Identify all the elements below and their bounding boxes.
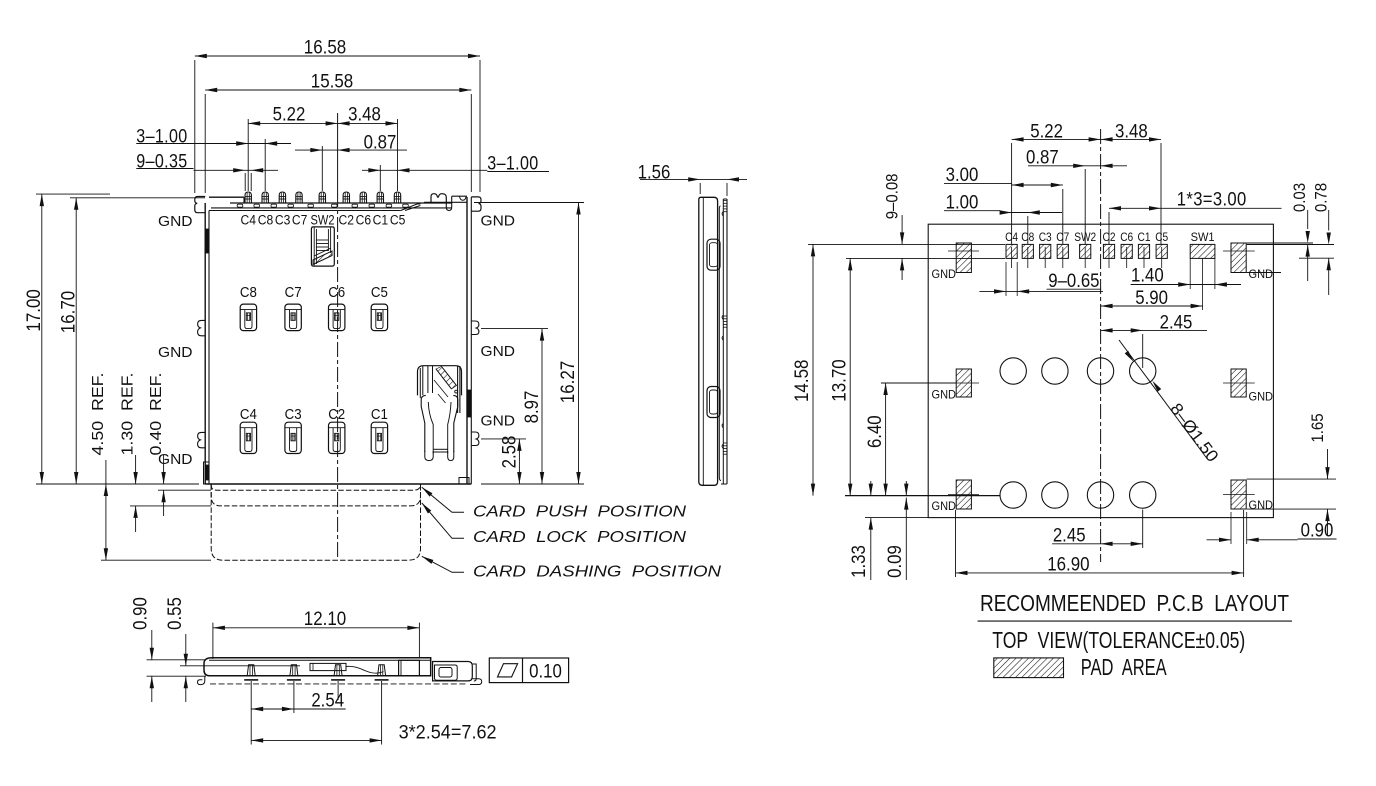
- svg-text:C5: C5: [1155, 230, 1168, 244]
- svg-text:9–0.08: 9–0.08: [883, 174, 902, 220]
- svg-text:14.58: 14.58: [792, 360, 813, 402]
- svg-text:GND: GND: [481, 413, 516, 430]
- svg-text:C4: C4: [240, 407, 257, 423]
- svg-text:0.40 REF.: 0.40 REF.: [148, 373, 165, 456]
- svg-text:2.58: 2.58: [499, 436, 520, 469]
- svg-text:C2: C2: [338, 212, 354, 227]
- svg-text:CARD LOCK POSITION: CARD LOCK POSITION: [473, 529, 687, 546]
- svg-text:C3: C3: [275, 212, 291, 227]
- svg-text:0.78: 0.78: [1312, 183, 1331, 212]
- svg-text:GND: GND: [158, 344, 193, 361]
- svg-text:0.10: 0.10: [529, 661, 562, 682]
- svg-text:0.87: 0.87: [364, 133, 397, 154]
- svg-text:GND: GND: [481, 343, 516, 360]
- svg-text:GND: GND: [932, 388, 957, 402]
- svg-text:5.22: 5.22: [1030, 122, 1063, 143]
- svg-text:C3: C3: [1039, 230, 1052, 244]
- svg-text:1.33: 1.33: [849, 545, 870, 578]
- svg-text:SW1: SW1: [1191, 230, 1215, 244]
- svg-text:GND: GND: [1249, 498, 1274, 512]
- svg-text:12.10: 12.10: [304, 609, 346, 630]
- svg-text:0.09: 0.09: [885, 545, 906, 578]
- svg-text:C5: C5: [371, 285, 388, 301]
- svg-text:PAD AREA: PAD AREA: [1081, 654, 1167, 680]
- svg-text:3*2.54=7.62: 3*2.54=7.62: [399, 723, 497, 744]
- svg-text:4.50 REF.: 4.50 REF.: [90, 373, 107, 456]
- svg-text:GND: GND: [481, 213, 516, 230]
- svg-text:C5: C5: [390, 212, 406, 227]
- svg-text:0.03: 0.03: [1290, 183, 1309, 212]
- svg-text:C4: C4: [240, 212, 256, 227]
- svg-text:3.48: 3.48: [1115, 122, 1148, 143]
- svg-text:3–1.00: 3–1.00: [136, 127, 187, 148]
- svg-text:1.30 REF.: 1.30 REF.: [119, 373, 136, 456]
- svg-text:13.70: 13.70: [829, 359, 850, 401]
- svg-text:CARD DASHING POSITION: CARD DASHING POSITION: [473, 564, 722, 581]
- svg-text:C6: C6: [356, 212, 372, 227]
- svg-text:3.00: 3.00: [946, 165, 979, 186]
- svg-text:0.90: 0.90: [130, 597, 151, 630]
- svg-text:1.40: 1.40: [1131, 266, 1164, 287]
- svg-text:1.56: 1.56: [638, 163, 671, 184]
- svg-text:GND: GND: [158, 213, 193, 230]
- svg-text:GND: GND: [1249, 390, 1274, 404]
- svg-text:GND: GND: [932, 499, 957, 513]
- svg-text:1*3=3.00: 1*3=3.00: [1177, 190, 1247, 211]
- svg-text:16.27: 16.27: [558, 361, 579, 403]
- svg-text:C7: C7: [285, 285, 302, 301]
- svg-text:C8: C8: [240, 285, 257, 301]
- svg-text:C7: C7: [292, 212, 308, 227]
- svg-text:C2: C2: [328, 407, 345, 423]
- svg-text:C3: C3: [285, 407, 302, 423]
- svg-text:15.58: 15.58: [311, 72, 353, 93]
- svg-text:CARD PUSH POSITION: CARD PUSH POSITION: [473, 503, 687, 520]
- svg-text:C6: C6: [1120, 230, 1133, 244]
- svg-text:16.70: 16.70: [58, 291, 79, 333]
- svg-text:9–0.35: 9–0.35: [136, 152, 187, 173]
- svg-text:6.40: 6.40: [865, 415, 886, 448]
- svg-text:C1: C1: [371, 407, 388, 423]
- svg-text:C8: C8: [258, 212, 274, 227]
- svg-text:16.58: 16.58: [304, 38, 346, 59]
- svg-text:8.97: 8.97: [522, 391, 543, 424]
- svg-text:0.55: 0.55: [165, 597, 186, 630]
- svg-text:2.54: 2.54: [311, 691, 344, 712]
- svg-text:C1: C1: [373, 212, 389, 227]
- svg-text:RECOMMEENDED P.C.B LAYOUT: RECOMMEENDED P.C.B LAYOUT: [980, 590, 1289, 616]
- svg-text:SW2: SW2: [311, 212, 335, 227]
- svg-text:17.00: 17.00: [24, 289, 45, 331]
- svg-text:0.90: 0.90: [1301, 521, 1334, 542]
- svg-text:C1: C1: [1138, 230, 1151, 244]
- svg-text:GND: GND: [932, 267, 957, 281]
- svg-text:GND: GND: [1249, 267, 1274, 281]
- svg-text:TOP VIEW(TOLERANCE±0.05): TOP VIEW(TOLERANCE±0.05): [992, 627, 1245, 653]
- svg-text:3.48: 3.48: [348, 105, 381, 126]
- svg-text:5.22: 5.22: [273, 105, 306, 126]
- svg-text:1.65: 1.65: [1308, 413, 1327, 442]
- svg-text:16.90: 16.90: [1047, 555, 1089, 576]
- svg-text:C6: C6: [328, 285, 345, 301]
